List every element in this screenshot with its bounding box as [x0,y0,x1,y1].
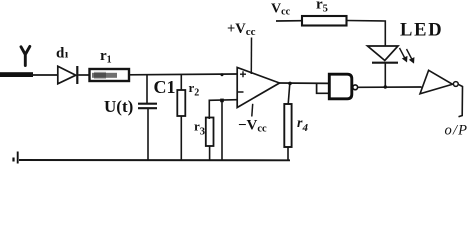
-Vcc supply [238,104,267,135]
svg-text:U(t): U(t) [104,97,133,116]
wire: bottom rail [19,159,290,161]
label r1 [100,48,112,66]
wire: main node to op-amp [129,73,238,76]
label r5 [316,0,328,14]
wire [78,74,89,76]
wire: inverting node to bottom rail [220,99,224,161]
label LED [400,21,443,41]
LED arrows [400,48,414,63]
node: output junction [288,82,292,86]
label r4 [297,116,308,134]
label r2 [189,80,200,99]
label C1 [154,77,176,97]
svg-text:dı: dı [56,46,69,62]
wire: r5 to LED anode [347,21,386,46]
resistor R3 [206,118,214,161]
label U(t) [104,97,133,116]
wire: inverter output to o/P [458,84,462,117]
wire: NAND input loop [317,84,330,94]
svg-text:LED: LED [400,21,443,41]
resistor R2 [177,75,185,161]
wire: op-amp output [280,82,330,84]
svg-text:C1: C1 [154,77,176,97]
wire: thick input lead [0,72,58,77]
LED D2 [368,46,399,87]
node: LED junction [384,85,387,88]
ground [14,152,18,164]
wire: Vcc to r5 [276,20,302,22]
diode d1 [58,66,78,84]
label o/P [445,123,469,139]
node on main wire [221,73,224,76]
antenna Y [21,46,30,65]
label r3 [194,119,205,138]
resistor R5 [302,16,347,26]
Vcc label [271,2,291,18]
wire: NAND output to inverter [358,86,422,88]
label d1 [56,46,69,62]
capacitor C1 [138,75,157,161]
wire: inverting input [209,100,237,119]
+Vcc supply [227,21,256,74]
NAND gate U2 [329,74,357,99]
inverter U3 [420,70,458,94]
op-amp U1 [237,68,279,108]
resistor R1 [90,69,130,81]
svg-text:o/P: o/P [445,123,469,139]
resistor R4 [284,83,291,160]
